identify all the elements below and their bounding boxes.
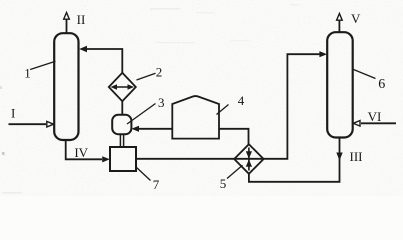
svg-text:III: III bbox=[350, 149, 363, 164]
svg-text:VI: VI bbox=[368, 109, 382, 124]
svg-text:I: I bbox=[11, 106, 15, 121]
svg-text:V: V bbox=[351, 11, 361, 26]
svg-text:3: 3 bbox=[158, 95, 165, 110]
svg-text:1: 1 bbox=[24, 65, 31, 80]
svg-text:5: 5 bbox=[220, 176, 227, 191]
svg-text:7: 7 bbox=[153, 177, 160, 192]
svg-text:IV: IV bbox=[74, 145, 88, 160]
svg-text:4: 4 bbox=[238, 93, 245, 108]
svg-text:II: II bbox=[77, 12, 86, 27]
svg-text:2: 2 bbox=[156, 65, 163, 80]
svg-text:6: 6 bbox=[378, 77, 385, 92]
